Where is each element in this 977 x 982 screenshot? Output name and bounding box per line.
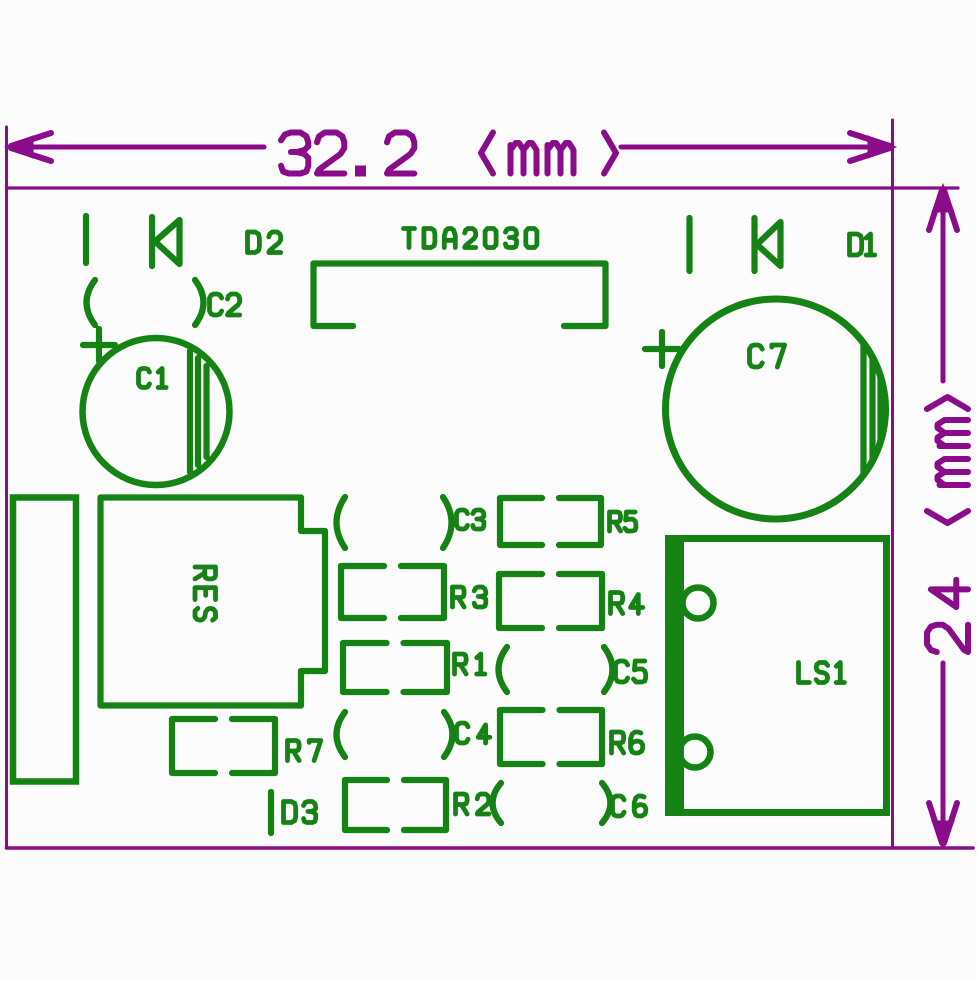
label R3: [453, 587, 486, 607]
arrowhead right: [850, 133, 893, 161]
label C3: [457, 510, 484, 529]
vertical dimension line bottom segment: [941, 663, 946, 845]
label R7: [288, 741, 321, 761]
label R4: [611, 593, 643, 614]
arrowhead left: [8, 133, 51, 161]
resistor R2 outline: [345, 780, 446, 830]
label LS1: [799, 663, 845, 683]
diode D2 anode lead mark: [83, 216, 89, 263]
capacitor C4 outline arcs: [337, 712, 453, 757]
label R5: [610, 512, 636, 531]
capacitor C1 polarity plus: [83, 329, 115, 361]
diode D1 anode lead mark: [686, 218, 692, 271]
label C2: [210, 294, 240, 315]
resistor R4 outline: [499, 574, 602, 628]
label C7: [750, 345, 785, 367]
label D1: [850, 234, 875, 255]
loudspeaker LS1 thick left bar: [665, 535, 684, 816]
label R2: [456, 794, 489, 814]
resistor R3 outline: [341, 566, 444, 618]
diode D3 cathode mark: [268, 792, 274, 833]
capacitor C7 polarity band: [864, 343, 881, 475]
board top reference line: [7, 186, 959, 189]
capacitor C1 polarity band: [190, 351, 207, 472]
label D3: [284, 802, 316, 823]
label C4: [457, 723, 490, 743]
resistor R7 outline: [172, 719, 275, 773]
resistor R6 outline: [500, 710, 602, 764]
label R1: [455, 654, 485, 674]
capacitor C2 outline arcs: [87, 280, 204, 325]
capacitor C7 polarity plus: [645, 332, 679, 366]
horizontal dimension line left segment: [14, 145, 264, 150]
dimension text 32.2 digits: [281, 133, 414, 174]
resistor R1 outline: [343, 643, 447, 692]
dimension text (mm): [481, 133, 616, 174]
dimension text decimal point: [355, 166, 366, 177]
label RES: [195, 567, 216, 620]
capacitor C7 outline: [666, 299, 886, 519]
label C1: [139, 369, 167, 388]
horizontal dimension line right segment: [621, 145, 886, 150]
resistor R5 outline: [500, 498, 601, 545]
diode D1 body: [755, 218, 781, 271]
diode D2 body: [152, 217, 180, 266]
loudspeaker LS1 pad hole 2: [680, 737, 711, 768]
label TDA2030: [404, 229, 537, 248]
IC outline TDA2030: [314, 264, 606, 327]
capacitor C3 outline arcs: [337, 497, 452, 548]
capacitor C6 outline arcs: [493, 783, 611, 823]
connector J1 outline: [13, 498, 76, 782]
board bottom reference line: [7, 846, 974, 850]
label C5: [616, 661, 646, 682]
label R6: [612, 732, 643, 753]
loudspeaker LS1 pad hole 1: [683, 588, 714, 619]
potentiometer RES outline: [101, 498, 326, 706]
capacitor C5 outline arcs: [499, 647, 613, 692]
vertical dimension text 24 (mm): [927, 397, 968, 652]
arrowhead up: [929, 187, 957, 230]
vertical dimension line top segment: [941, 189, 946, 381]
loudspeaker LS1 outline: [669, 539, 887, 813]
arrowhead down: [929, 803, 957, 846]
label D2: [248, 232, 281, 253]
dimension extension line left vertical: [5, 127, 8, 848]
dimension extension line right vertical (board edge x=893): [891, 120, 894, 847]
label C6: [613, 796, 646, 816]
capacitor C1 outline: [83, 338, 230, 485]
